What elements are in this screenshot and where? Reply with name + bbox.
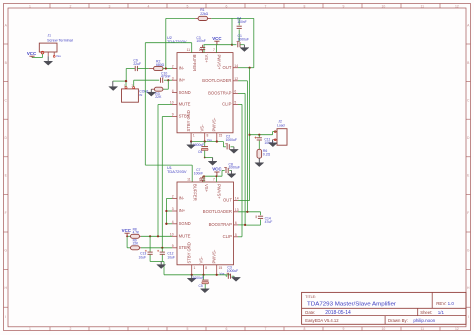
svg-text:1000uF: 1000uF	[229, 166, 241, 170]
wire U1 tied inputs	[166, 198, 172, 200]
svg-text:14: 14	[235, 197, 239, 201]
U1 pin 6 BOOSTRAP	[234, 224, 239, 226]
wire CLIP rail	[238, 103, 242, 105]
svg-text:J1: J1	[48, 34, 52, 38]
U1 pin 15 PWVS-	[216, 265, 218, 275]
resistor R3 22K	[154, 87, 163, 91]
ground at J2	[272, 140, 274, 143]
svg-text:PWVS+: PWVS+	[217, 184, 222, 199]
U2 pin 5 CLIP	[233, 103, 238, 105]
svg-text:13: 13	[235, 208, 239, 212]
svg-text:1000uF: 1000uF	[193, 143, 204, 147]
svg-text:4: 4	[148, 327, 150, 331]
svg-text:1: 1	[193, 134, 195, 138]
resistor R6 0.2	[257, 149, 262, 158]
svg-text:F: F	[467, 211, 469, 215]
capacitor C2 1000uF	[222, 142, 224, 147]
capacitor C7 100nF at U1 VS+	[200, 178, 205, 180]
U1 pin 3 IN+	[172, 210, 177, 212]
svg-text:G: G	[4, 248, 7, 252]
wire C14 to BOOSTRAP	[245, 224, 260, 226]
svg-text:7: 7	[213, 48, 215, 52]
capacitor C6 1000uF below U2	[204, 142, 206, 147]
resistor R8 4.7K	[127, 235, 130, 237]
U2 pin 14 OUT	[233, 67, 238, 69]
ground at C5	[201, 289, 210, 293]
U1 pin 9 STBY	[172, 247, 177, 249]
U1 pin 5 CLIP	[234, 236, 239, 238]
svg-text:C6: C6	[198, 150, 202, 154]
wire OUT rail	[249, 68, 251, 201]
svg-text:15: 15	[219, 266, 223, 270]
wire C4 riser	[231, 18, 233, 44]
svg-text:9: 9	[343, 327, 345, 331]
svg-text:PWVS-: PWVS-	[212, 117, 217, 131]
svg-text:IN: IN	[139, 93, 142, 97]
svg-text:Load: Load	[277, 124, 285, 128]
svg-text:STBY GND: STBY GND	[187, 242, 192, 263]
junction IN- feedback	[165, 67, 167, 69]
svg-text:I: I	[5, 315, 6, 319]
svg-text:22K: 22K	[155, 95, 162, 99]
svg-text:12: 12	[455, 4, 459, 8]
svg-text:100nF: 100nF	[194, 172, 203, 176]
wire R3 riser	[167, 80, 169, 89]
svg-text:Sheet:: Sheet:	[420, 310, 432, 315]
svg-text:8: 8	[205, 266, 207, 270]
wire STBY line U1	[141, 247, 172, 249]
svg-text:VS-: VS-	[200, 124, 205, 132]
svg-text:SGND: SGND	[179, 221, 191, 226]
svg-text:VCC: VCC	[212, 167, 222, 172]
resistor R2 680	[149, 68, 154, 70]
ground at C8	[231, 170, 233, 173]
U1 pin 10 MUTE	[172, 235, 177, 237]
wire BOOSTRAP rail	[238, 92, 245, 94]
svg-text:470nF: 470nF	[161, 75, 171, 79]
ground at C1	[243, 45, 245, 48]
svg-text:REV:: REV:	[436, 301, 446, 306]
svg-text:PWVS+: PWVS+	[217, 55, 222, 70]
svg-text:OUT: OUT	[223, 65, 232, 70]
op-amp U1 TDA7293V	[177, 182, 234, 265]
junction OUT load	[249, 134, 251, 136]
svg-text:12: 12	[234, 77, 238, 81]
svg-text:IN+: IN+	[179, 77, 186, 82]
svg-text:15: 15	[219, 134, 223, 138]
capacitor C4 100nF	[238, 18, 240, 25]
svg-text:STBY GND: STBY GND	[186, 110, 191, 131]
title block	[302, 292, 466, 324]
svg-text:BOOSTRAP: BOOSTRAP	[208, 91, 231, 96]
svg-text:5: 5	[187, 327, 189, 331]
svg-text:1: 1	[29, 4, 31, 8]
svg-text:1.0: 1.0	[448, 301, 455, 306]
wire MUTE rail	[157, 105, 159, 237]
wire U1 negative rail	[164, 274, 231, 276]
svg-text:BOOTLOADER: BOOTLOADER	[203, 209, 232, 214]
U2 pin 10 MUTE	[172, 104, 177, 106]
svg-text:TDA7293V: TDA7293V	[167, 40, 187, 44]
svg-text:Vss: Vss	[207, 138, 213, 142]
op-amp U2 TDA7293V	[177, 53, 233, 133]
svg-text:I: I	[468, 315, 469, 319]
U2 pin 4 SGND	[172, 92, 177, 94]
capacitor C9 22uF	[135, 66, 137, 71]
svg-text:6: 6	[234, 90, 236, 94]
wire feedback top right	[211, 17, 254, 19]
svg-text:13: 13	[199, 48, 203, 52]
svg-text:4: 4	[148, 4, 150, 8]
capacitor C14 47uF	[258, 216, 263, 218]
svg-text:SGND: SGND	[179, 90, 191, 95]
ground at J1 pin2	[47, 56, 49, 61]
svg-text:6: 6	[235, 221, 237, 225]
svg-text:MUTE: MUTE	[179, 234, 191, 239]
ground at R6	[258, 158, 260, 163]
svg-text:VCC: VCC	[212, 36, 222, 41]
U1 pin 4 SGND	[172, 223, 177, 225]
svg-text:100nF: 100nF	[196, 39, 205, 43]
svg-text:22kΩ: 22kΩ	[200, 12, 208, 16]
wire buffer net top	[145, 42, 191, 44]
svg-text:TDA7293V: TDA7293V	[167, 170, 187, 174]
U2 pin 9 STBY	[172, 116, 177, 118]
wire U1 OUT stub	[238, 200, 250, 202]
wire caps common ground	[150, 261, 164, 263]
wire OUT U2	[238, 67, 254, 69]
svg-text:9: 9	[343, 4, 345, 8]
U2 pin 8 VS-	[204, 133, 206, 142]
svg-text:OUT: OUT	[223, 198, 232, 203]
wire CON1 pin2 riser	[133, 80, 135, 86]
wire U1 BOOSTRAP stub	[238, 224, 245, 226]
svg-text:5: 5	[187, 4, 189, 8]
svg-text:2: 2	[172, 195, 174, 199]
svg-text:4: 4	[172, 89, 174, 93]
svg-text:1000uF: 1000uF	[238, 38, 250, 42]
svg-text:11: 11	[187, 178, 191, 182]
svg-text:VCC: VCC	[27, 51, 37, 56]
svg-text:philip.noon: philip.noon	[413, 318, 435, 323]
svg-text:IN-: IN-	[179, 196, 185, 201]
svg-text:6: 6	[226, 4, 228, 8]
capacitor C1 1000uF	[232, 44, 236, 46]
svg-text:VS-: VS-	[198, 256, 203, 264]
wire feedback riser to OUT	[253, 18, 255, 67]
svg-text:EasyEDA V5.4.12: EasyEDA V5.4.12	[305, 318, 339, 323]
svg-text:0.2Ω: 0.2Ω	[263, 152, 271, 156]
U1 pin 2 IN-	[172, 198, 177, 200]
ground at U1 STBY GND	[191, 275, 193, 279]
svg-text:VS+: VS+	[204, 184, 209, 193]
wire VCC drop to R9	[126, 236, 128, 248]
wire to load	[250, 134, 273, 136]
svg-text:6: 6	[226, 327, 228, 331]
svg-text:10uF: 10uF	[138, 255, 146, 259]
U1 pin 13 BOOTLOADER	[234, 211, 239, 213]
svg-text:F: F	[5, 211, 7, 215]
svg-text:Vss: Vss	[219, 271, 225, 275]
wire buffer rail down	[144, 43, 146, 165]
svg-text:4.7K: 4.7K	[133, 231, 140, 235]
svg-text:10uF: 10uF	[167, 255, 175, 259]
svg-text:IN+: IN+	[179, 208, 186, 213]
svg-text:1000uF: 1000uF	[227, 269, 239, 273]
svg-text:1000uF: 1000uF	[226, 138, 238, 142]
svg-text:TDA7293 Master/Slave Amplifier: TDA7293 Master/Slave Amplifier	[307, 302, 396, 308]
svg-text:Date:: Date:	[305, 310, 315, 315]
svg-text:5: 5	[234, 101, 236, 105]
junction IN+ bias	[167, 79, 169, 81]
svg-text:11: 11	[187, 48, 191, 52]
junction CON1 ground	[125, 80, 127, 82]
svg-text:10: 10	[170, 233, 174, 237]
ground at C12 C13	[160, 262, 162, 265]
svg-text:3: 3	[109, 4, 111, 8]
svg-text:680Ω: 680Ω	[156, 63, 165, 67]
svg-text:VCC: VCC	[122, 228, 132, 233]
U2 pin 2 IN-	[172, 68, 177, 70]
svg-text:G: G	[467, 248, 470, 252]
svg-text:8: 8	[304, 327, 306, 331]
svg-text:CLIP: CLIP	[223, 234, 233, 239]
U1 pin 1 STBY GND	[191, 265, 193, 275]
svg-text:12: 12	[455, 327, 459, 331]
svg-text:3: 3	[172, 76, 174, 80]
svg-text:11: 11	[421, 4, 425, 8]
svg-text:1000uF: 1000uF	[193, 276, 204, 280]
connector J2 Load	[277, 129, 287, 146]
svg-text:22K: 22K	[133, 242, 140, 246]
ground at R3	[150, 89, 152, 92]
wire U2 MUTE stub	[158, 104, 172, 106]
connector J1 Screw Terminal	[39, 43, 57, 52]
wire VCC rail U2 top	[204, 44, 233, 46]
svg-text:2018-05-14: 2018-05-14	[325, 310, 351, 316]
capacitor C8 1000uF	[221, 170, 223, 176]
svg-text:PWVS-: PWVS-	[212, 249, 217, 263]
capacitor C13 10uF	[149, 236, 151, 252]
svg-text:VS+: VS+	[204, 55, 209, 64]
svg-text:9: 9	[172, 244, 174, 248]
svg-text:BOOSTRAP: BOOSTRAP	[209, 222, 232, 227]
U2 pin 1 STBY GND	[190, 133, 192, 142]
svg-text:TITLE:: TITLE:	[305, 295, 316, 299]
ground at C3b	[233, 276, 235, 277]
ground at U2 STBY GND	[190, 142, 192, 145]
capacitor C11 100nF	[258, 135, 260, 138]
svg-text:CLIP: CLIP	[222, 102, 232, 107]
svg-text:2: 2	[172, 65, 174, 69]
svg-text:47uF: 47uF	[265, 220, 273, 224]
connector CON1	[122, 89, 139, 102]
svg-text:7: 7	[213, 178, 215, 182]
wire IN+ line	[134, 79, 160, 81]
capacitor C5 1000uF below U1	[203, 275, 205, 280]
wire BOOTLOADER rail	[238, 80, 247, 82]
ground at C2	[233, 147, 235, 150]
svg-text:3: 3	[172, 207, 174, 211]
capacitor C3 100nF at U2 VS+	[200, 47, 205, 49]
svg-text:9: 9	[172, 113, 174, 117]
wire STBY rail	[161, 117, 163, 248]
svg-text:14: 14	[234, 64, 238, 68]
junction VCC C4	[231, 44, 233, 46]
svg-text:BOOTLOADER: BOOTLOADER	[202, 78, 231, 83]
svg-text:MUTE: MUTE	[179, 102, 191, 107]
svg-text:1/1: 1/1	[438, 310, 445, 315]
wire VCC rail U1 top	[203, 175, 222, 177]
wire buffer U2 riser	[191, 43, 193, 53]
svg-text:BUFFER: BUFFER	[192, 55, 197, 72]
svg-text:C5: C5	[199, 284, 203, 288]
wire feedback top left	[166, 17, 195, 19]
svg-text:5: 5	[235, 233, 237, 237]
wire U2 negative rail	[191, 141, 223, 143]
svg-text:2: 2	[70, 327, 72, 331]
svg-text:Screw Terminal: Screw Terminal	[47, 39, 73, 43]
wire U1 BOOTLOADER to C14	[238, 211, 261, 213]
U2 pin 6 BOOSTRAP	[233, 92, 238, 94]
svg-text:Vss: Vss	[56, 54, 61, 58]
resistor R9 22K	[127, 247, 130, 249]
junction zobel	[258, 134, 260, 136]
capacitor C12 10uF	[161, 248, 163, 252]
wire buffer to U1	[145, 164, 192, 166]
svg-text:IN-: IN-	[179, 66, 185, 71]
wire C9 left to ground junction	[126, 68, 135, 70]
wire J1 pin1 to VCC	[42, 54, 44, 58]
svg-text:1: 1	[29, 327, 31, 331]
wire CON1 pin1 to ground	[125, 81, 127, 86]
svg-text:4: 4	[172, 220, 174, 224]
svg-text:3: 3	[109, 327, 111, 331]
ground at CON1	[112, 81, 114, 87]
wire U2 STBY stub	[162, 116, 172, 118]
svg-text:2: 2	[70, 4, 72, 8]
svg-text:1: 1	[194, 266, 196, 270]
svg-text:8: 8	[304, 4, 306, 8]
U1 pin 8 VS-	[203, 265, 205, 275]
svg-text:Drawn By:: Drawn By:	[388, 318, 408, 323]
wire feedback riser to IN-	[165, 18, 167, 68]
junction OUT U2	[249, 67, 251, 69]
wire MUTE line U1	[141, 235, 172, 237]
svg-text:100nF: 100nF	[237, 20, 246, 24]
capacitor C10 470nF	[161, 78, 163, 83]
svg-text:BUFFER: BUFFER	[192, 184, 197, 201]
U2 pin 12 BOOTLOADER	[233, 80, 238, 82]
svg-text:11: 11	[421, 327, 425, 331]
U2 pin 3 IN+	[172, 79, 177, 81]
ground at C6	[205, 157, 213, 159]
svg-text:22uF: 22uF	[133, 62, 141, 66]
svg-text:10: 10	[382, 327, 386, 331]
power flag VCC at J1	[31, 56, 33, 57]
svg-text:7: 7	[265, 327, 267, 331]
svg-text:10: 10	[382, 4, 386, 8]
resistor R1 22k	[195, 17, 198, 19]
U2 pin 15 PWVS-	[216, 133, 218, 142]
U1 pin 14 OUT	[234, 200, 239, 202]
capacitor C3b 1000uF	[225, 275, 227, 276]
svg-text:7: 7	[265, 4, 267, 8]
